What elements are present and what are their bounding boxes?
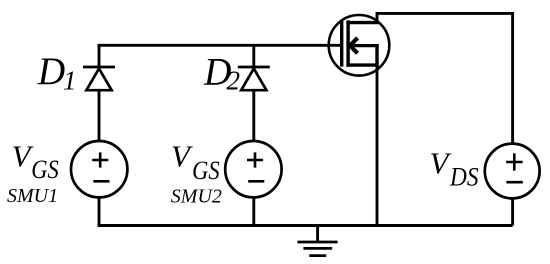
svg-text:V: V: [12, 139, 34, 174]
svg-text:2: 2: [227, 66, 241, 96]
svg-text:V: V: [171, 139, 193, 174]
svg-text:DS: DS: [449, 163, 478, 192]
svg-text:V: V: [430, 145, 452, 180]
svg-text:D: D: [37, 50, 65, 93]
svg-text:SMU2: SMU2: [171, 186, 222, 208]
svg-text:SMU1: SMU1: [7, 185, 58, 207]
svg-text:GS: GS: [192, 156, 220, 185]
svg-text:GS: GS: [31, 155, 59, 184]
svg-text:1: 1: [63, 65, 77, 95]
